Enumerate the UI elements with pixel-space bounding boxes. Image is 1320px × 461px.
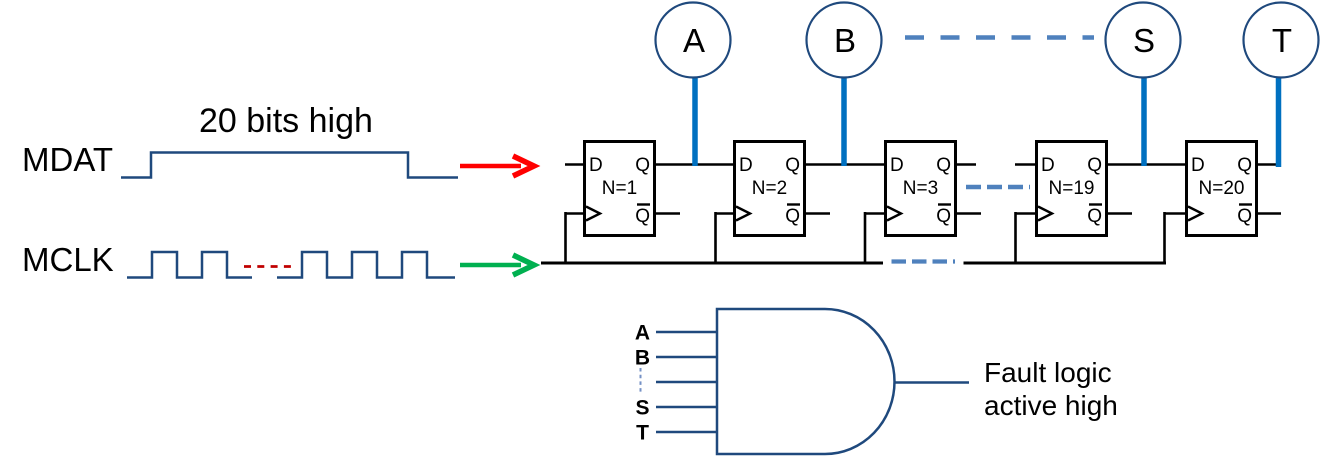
wire Qbar20 stub bbox=[1257, 212, 1281, 215]
MDAT waveform bbox=[121, 153, 458, 178]
dashed wire Q3 to D19 bbox=[966, 185, 1030, 190]
svg-text:Q: Q bbox=[1237, 206, 1252, 227]
node S bbox=[1106, 3, 1181, 78]
svg-text:A: A bbox=[683, 22, 705, 59]
svg-text:N=2: N=2 bbox=[752, 178, 787, 199]
wire AND input A bbox=[656, 331, 716, 334]
svg-text:Q: Q bbox=[936, 206, 951, 227]
clock bus wire right segment bbox=[964, 262, 1167, 265]
wire Q1 to D2 bbox=[655, 163, 735, 166]
red arrow MDAT to shift register bbox=[460, 156, 534, 176]
wire clock riser 20 bbox=[1165, 212, 1187, 263]
wire Q2 to D3 bbox=[805, 163, 886, 166]
svg-text:20 bits high: 20 bits high bbox=[199, 102, 373, 140]
green arrow MCLK to clock bus bbox=[460, 255, 534, 275]
MCLK break red dashes bbox=[244, 265, 294, 268]
svg-text:D: D bbox=[1041, 155, 1055, 176]
svg-text:Q: Q bbox=[1237, 155, 1252, 176]
svg-text:Q: Q bbox=[1087, 206, 1102, 227]
node A bbox=[656, 3, 731, 78]
svg-text:D: D bbox=[890, 155, 904, 176]
wire clock riser 3 bbox=[865, 212, 885, 263]
flip-flop N=2 bbox=[735, 142, 805, 236]
wire AND input T bbox=[656, 431, 716, 434]
wire node B tap bbox=[841, 78, 847, 167]
label Fault logic active high bbox=[984, 357, 1118, 421]
svg-text:active high: active high bbox=[984, 390, 1118, 421]
svg-text:D: D bbox=[589, 155, 603, 176]
svg-text:MDAT: MDAT bbox=[22, 141, 113, 178]
svg-text:Q: Q bbox=[785, 206, 800, 227]
svg-text:S: S bbox=[1133, 22, 1155, 59]
svg-text:N=19: N=19 bbox=[1049, 178, 1095, 199]
wire node A tap bbox=[692, 78, 698, 167]
wire Qbar2 stub bbox=[805, 212, 830, 215]
node T bbox=[1244, 3, 1319, 78]
wire AND input S bbox=[656, 406, 716, 409]
wire Qbar19 stub bbox=[1107, 212, 1132, 215]
wire Q20 stub bbox=[1257, 163, 1281, 166]
flip-flop N=20 bbox=[1187, 142, 1257, 236]
svg-text:Q: Q bbox=[635, 206, 650, 227]
wire node T tap bbox=[1276, 78, 1282, 168]
svg-text:T: T bbox=[636, 422, 649, 445]
flip-flop N=19 bbox=[1037, 142, 1107, 236]
wire AND input B bbox=[656, 356, 716, 359]
wire Qbar1 stub bbox=[655, 212, 680, 215]
wire AND gate output bbox=[894, 381, 969, 384]
svg-text:MCLK: MCLK bbox=[22, 241, 114, 278]
svg-text:Q: Q bbox=[936, 155, 951, 176]
wire AND input mid bbox=[656, 381, 716, 384]
svg-text:D: D bbox=[1191, 155, 1205, 176]
svg-text:B: B bbox=[834, 22, 856, 59]
wire clock riser 1 bbox=[566, 212, 585, 263]
MCLK waveform left part bbox=[127, 252, 252, 278]
wire clock riser 2 bbox=[716, 212, 735, 263]
flip-flop N=1 bbox=[585, 142, 655, 236]
wire Q3 stub bbox=[956, 163, 976, 166]
svg-text:N=1: N=1 bbox=[602, 178, 637, 199]
clock bus dashed segment bbox=[892, 259, 956, 263]
MCLK waveform right part bbox=[277, 252, 455, 278]
svg-text:Q: Q bbox=[635, 155, 650, 176]
svg-text:D: D bbox=[739, 155, 753, 176]
AND gate bbox=[717, 309, 895, 454]
node B bbox=[807, 3, 882, 78]
clock bus wire left segment bbox=[541, 262, 883, 265]
svg-text:Q: Q bbox=[1087, 155, 1102, 176]
svg-text:S: S bbox=[635, 397, 649, 420]
svg-text:B: B bbox=[635, 347, 650, 370]
wire D1 input stub bbox=[565, 163, 584, 166]
wire node S tap bbox=[1141, 78, 1147, 167]
dashed wire node B to node S bbox=[905, 35, 1094, 40]
svg-text:N=3: N=3 bbox=[903, 178, 938, 199]
svg-text:Q: Q bbox=[785, 155, 800, 176]
svg-text:N=20: N=20 bbox=[1199, 178, 1245, 199]
wire Qbar3 stub bbox=[956, 212, 981, 215]
flip-flop N=3 bbox=[886, 142, 956, 236]
wire clock riser 19 bbox=[1016, 212, 1037, 263]
svg-text:A: A bbox=[635, 322, 650, 345]
wire D19 input stub bbox=[1015, 163, 1036, 166]
svg-text:T: T bbox=[1272, 22, 1292, 59]
wire Q19 to D20 bbox=[1107, 163, 1187, 166]
svg-text:Fault logic: Fault logic bbox=[984, 357, 1112, 388]
dashed ellipsis between B and S labels bbox=[640, 368, 642, 393]
